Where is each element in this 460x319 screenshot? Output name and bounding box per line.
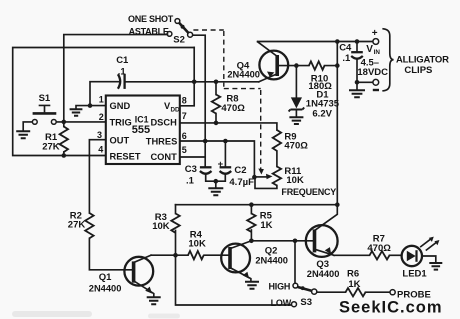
svg-text:10K: 10K: [152, 221, 170, 232]
svg-text:DSCH: DSCH: [150, 118, 177, 128]
svg-text:555: 555: [132, 124, 150, 136]
svg-text:LED1: LED1: [402, 269, 427, 280]
watermark SeekIC.com: [339, 299, 443, 317]
svg-text:HIGH: HIGH: [269, 281, 291, 291]
wire pin1 node to ground: [76, 106, 90, 109]
resistor R8: [212, 82, 220, 123]
label C1 value: [116, 55, 129, 77]
label C2 value: [229, 165, 254, 188]
wire S1 left contact to ground: [23, 122, 32, 131]
resistor R9: [273, 130, 281, 151]
transistor Q4 2N4400: [258, 42, 297, 82]
battery plus terminal: [372, 28, 379, 45]
junction Q4 base / R10 / D1: [294, 63, 299, 68]
junction pullup rail / Q3 collector: [335, 202, 340, 207]
ground (Q1): [147, 297, 161, 304]
wire C2 top stem: [224, 141, 226, 167]
svg-text:V: V: [366, 44, 373, 55]
svg-text:3: 3: [97, 130, 102, 140]
svg-text:OUT: OUT: [110, 136, 130, 146]
resistor R6: [346, 288, 391, 296]
label C3 value: [185, 164, 197, 187]
junction Q1 collector / R3 / R4 / LOW: [173, 253, 178, 258]
label R1 value: [42, 132, 60, 153]
IC name IC1 555: [132, 115, 150, 136]
wire CONT pin 5 to C3: [180, 156, 205, 158]
label R6 value: [347, 269, 361, 290]
resistor R10: [296, 61, 337, 69]
svg-text:470Ω: 470Ω: [284, 141, 308, 152]
probe terminal: [390, 290, 395, 295]
svg-text:5: 5: [182, 145, 187, 155]
wire TRIG row (S1 to pin 2): [56, 121, 106, 123]
junction pin 1 / C1 / ground: [88, 103, 93, 108]
label R3 value: [152, 212, 170, 232]
wire main vertical V+ to Q3 collector rail: [336, 42, 338, 205]
wire LOW contact to Q1 collector node: [176, 255, 292, 305]
resistor R5: [247, 205, 255, 241]
pin number 1: [99, 95, 104, 105]
svg-text:IN: IN: [374, 49, 381, 56]
svg-text:1: 1: [99, 95, 104, 105]
label R7 value: [367, 234, 391, 254]
svg-text:6.2V: 6.2V: [312, 109, 332, 120]
pin number 6: [182, 131, 187, 141]
wire OUT pin 3 to R2: [89, 140, 105, 213]
wire Q2/Q3 pullup rail: [176, 204, 338, 206]
ground (C2 C3): [208, 188, 223, 195]
junction V+ rail / pin 8: [192, 80, 197, 85]
label Q1: [89, 272, 122, 293]
resistor R7: [370, 251, 402, 259]
junction top rail / main vertical: [335, 39, 340, 44]
label PROBE: [397, 290, 431, 301]
pin number 7: [182, 111, 187, 121]
svg-text:1K: 1K: [260, 220, 272, 231]
svg-text:GND: GND: [110, 101, 131, 111]
svg-text:Q1: Q1: [99, 272, 112, 283]
wire DSCH pin 7 to R9: [180, 123, 277, 130]
junction V+ rail / R8 top: [214, 80, 219, 85]
wire R9 to R11: [276, 151, 278, 167]
switch S3 high contact: [293, 283, 298, 288]
label Vin: [357, 44, 388, 78]
ground (D1): [289, 117, 303, 124]
wire THRES pin 6 to R11 wiper node: [180, 141, 254, 177]
wire top V+ rail: [258, 41, 373, 43]
svg-text:C4: C4: [339, 43, 352, 54]
switch S3 common contact: [312, 289, 317, 294]
svg-text:2N4400: 2N4400: [89, 284, 122, 294]
svg-text:LOW: LOW: [271, 298, 292, 308]
junction RESET row / R1 bottom: [62, 153, 67, 158]
svg-text:S3: S3: [300, 297, 312, 308]
label astable: [129, 27, 169, 37]
pushbutton S1: [32, 105, 56, 124]
svg-text:.1: .1: [342, 53, 351, 64]
junction top rail / C4: [355, 39, 360, 44]
svg-text:8: 8: [182, 95, 187, 105]
junction Q3 base row / HIGH contact: [293, 239, 298, 244]
junction C2 C3 ground node: [214, 179, 219, 184]
switch S2 one-shot contact: [175, 19, 180, 24]
label R10 value: [308, 74, 332, 93]
svg-text:ASTABLE: ASTABLE: [129, 27, 169, 37]
svg-text:10K: 10K: [188, 239, 206, 250]
junction R10 / main vertical: [335, 63, 340, 68]
wire S2 common to THRES drop: [193, 35, 206, 141]
ground (LED1): [429, 263, 442, 270]
svg-text:27K: 27K: [68, 220, 86, 231]
transistor Q3 2N4400: [306, 205, 338, 257]
svg-text:10K: 10K: [286, 175, 304, 186]
wire V+ rail (C1 right plate to Q4 emitter): [125, 81, 259, 83]
svg-text:ONE SHOT: ONE SHOT: [128, 14, 174, 24]
svg-text:470Ω: 470Ω: [221, 103, 245, 114]
junction pullup rail / R5 top: [249, 202, 254, 207]
junction C4 bottom / minus wire: [355, 80, 360, 85]
svg-text:CLIPS: CLIPS: [404, 65, 432, 76]
label Q4: [227, 60, 260, 79]
wire V+ drop to pin 8: [180, 48, 194, 106]
label LED1: [402, 269, 427, 280]
switch S2 blade: [179, 22, 189, 33]
wire Q3 base row: [251, 240, 313, 242]
label S1: [39, 93, 51, 104]
transistor Q2 2N4400: [221, 241, 251, 281]
svg-text:S1: S1: [39, 93, 51, 104]
wire minus terminal to C4 bottom: [357, 81, 373, 83]
svg-text:C2: C2: [234, 165, 246, 176]
capacitor C4: [351, 42, 363, 90]
svg-text:27K: 27K: [42, 142, 60, 153]
svg-text:2: 2: [99, 112, 104, 122]
wire Q1 collector row with resistor R4: [151, 251, 228, 259]
capacitor C2: [218, 159, 232, 174]
label R8 value: [221, 94, 245, 115]
svg-text:THRES: THRES: [146, 136, 178, 146]
svg-text:TRIG: TRIG: [110, 118, 132, 128]
label Q2: [255, 246, 288, 266]
label S3: [300, 297, 312, 308]
svg-text:7: 7: [182, 111, 187, 121]
ground (pin 1): [70, 109, 83, 115]
switch S2 common contact: [188, 32, 193, 37]
IC IC1 555 timer: [106, 96, 180, 165]
svg-text:2N4400: 2N4400: [227, 70, 260, 80]
svg-text:18VDC: 18VDC: [357, 67, 388, 78]
svg-text:4.7µF: 4.7µF: [229, 177, 254, 188]
IC pin labels left: [110, 101, 141, 162]
wire astable contact to TRIG: [64, 35, 167, 122]
svg-text:CONT: CONT: [150, 152, 177, 162]
pin number 5: [182, 145, 187, 155]
junction R5 bottom / Q2 collector / Q3 base: [249, 239, 254, 244]
svg-text:+: +: [218, 159, 224, 170]
svg-text:2N4400: 2N4400: [307, 269, 340, 279]
label S2: [173, 34, 185, 45]
svg-text:S2: S2: [173, 34, 185, 45]
wire C3/C2 bottoms to ground node: [206, 175, 226, 188]
svg-text:C1: C1: [116, 55, 129, 66]
junction THRES / C2 top: [223, 139, 228, 144]
LED1: [402, 246, 436, 266]
wire outer left loop (V+ to RESET row): [13, 48, 195, 156]
pin number 8: [182, 95, 187, 105]
scan artifact streaks: [12, 311, 180, 319]
switch S3 blade: [298, 286, 312, 290]
label D1 value: [306, 90, 340, 120]
label R4 value: [188, 230, 206, 250]
battery minus terminal: [373, 79, 379, 90]
svg-text:+: +: [372, 28, 378, 39]
wire C1 left plate to pin 1 node: [90, 82, 119, 106]
label C4 value: [339, 43, 352, 65]
LED1 light arrows: [421, 237, 440, 250]
wire Q3 emitter to R7: [334, 254, 370, 256]
label Q3: [307, 259, 340, 279]
svg-text:2N4400: 2N4400: [255, 256, 288, 266]
label R9 value: [284, 132, 308, 152]
junction TRIG / R1 / S2 astable: [62, 120, 67, 125]
transistor Q1 2N4400: [124, 255, 153, 296]
pin number 2: [99, 112, 104, 122]
switch S3 low contact: [292, 302, 297, 307]
label one shot: [128, 14, 174, 24]
label R11 value frequency: [281, 166, 336, 197]
wire S3 common to R6: [317, 291, 346, 293]
svg-text:6: 6: [182, 131, 187, 141]
svg-text:.1: .1: [118, 66, 127, 77]
svg-text:470Ω: 470Ω: [367, 243, 391, 254]
svg-text:1K: 1K: [348, 279, 360, 290]
IC pin labels right: [146, 101, 180, 162]
label HIGH: [269, 281, 291, 291]
label R5 value: [260, 211, 273, 232]
resistor R1: [60, 122, 68, 156]
svg-text:FREQUENCY: FREQUENCY: [281, 187, 336, 197]
zener diode D1 1N4735: [289, 66, 305, 117]
pin number 3: [97, 130, 102, 140]
svg-text:.1: .1: [186, 176, 195, 187]
pin number 4: [98, 144, 103, 154]
svg-text:SeekIC.com: SeekIC.com: [339, 299, 443, 317]
svg-text:ALLIGATOR: ALLIGATOR: [396, 55, 449, 66]
svg-text:C3: C3: [185, 164, 197, 175]
wire C3 top stem: [204, 141, 206, 167]
junction R11 wiper node: [252, 175, 257, 180]
svg-text:DD: DD: [171, 106, 181, 113]
svg-text:4: 4: [98, 144, 103, 154]
resistor R2: [85, 213, 131, 270]
label LOW: [271, 298, 292, 308]
capacitor C1: [118, 74, 125, 89]
potentiometer R11: [254, 167, 281, 189]
ground (S1): [16, 131, 30, 138]
svg-text:RESET: RESET: [110, 152, 141, 162]
brace alligator clips: [383, 29, 393, 91]
switch S2 dashed link to R11 wiper: [193, 30, 264, 175]
capacitor C3: [200, 167, 212, 173]
label R2 value: [68, 211, 86, 231]
switch S2 astable contact: [167, 32, 172, 37]
label alligator clips: [396, 55, 449, 77]
resistor R3: [171, 205, 179, 256]
ground (Q2): [245, 282, 259, 289]
junction DSCH / R8 bottom: [214, 121, 219, 126]
junction THRES / S2 common / C3: [203, 139, 208, 144]
ground (C4 / battery minus): [349, 90, 365, 97]
wire HIGH contact to Q3 base node: [294, 241, 296, 283]
